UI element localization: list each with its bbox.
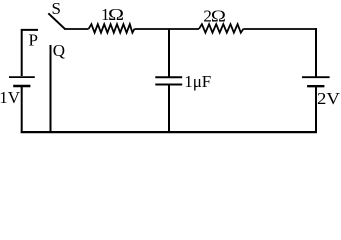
wire switch to resistor R1 [64, 28, 88, 30]
battery B2 short plate [307, 85, 324, 87]
svg-text:Ω: Ω [108, 6, 124, 24]
wire battery B1 to bottom [21, 87, 23, 133]
wire capacitor C1 to bottom [168, 85, 170, 133]
svg-text:1μF: 1μF [184, 72, 211, 91]
capacitor C1 bottom plate [155, 84, 182, 86]
capacitor C1 top plate [155, 76, 182, 78]
resistor R1 zigzag 1 ohm [89, 24, 135, 33]
resistor R2 zigzag 2 ohm [199, 24, 244, 33]
wire top-left stub to P contact [22, 30, 38, 76]
battery B1 short plate [13, 85, 30, 88]
svg-text:2V: 2V [317, 89, 341, 108]
battery B1 long plate [9, 76, 35, 78]
svg-text:P: P [29, 31, 38, 50]
switch S blade [48, 13, 65, 29]
wire R1 to node A [135, 28, 200, 30]
svg-text:1V: 1V [0, 88, 21, 107]
wire battery B2 to bottom [315, 87, 317, 133]
battery B2 long plate [302, 76, 330, 78]
svg-text:S: S [52, 0, 61, 18]
wire bottom [21, 131, 317, 133]
wire node Q vertical [50, 45, 52, 133]
wire top-right corner down to battery B2 [315, 28, 317, 77]
svg-text:Ω: Ω [211, 7, 226, 26]
svg-text:Q: Q [53, 41, 65, 60]
wire R2 to top-right corner [244, 28, 317, 30]
wire node A to capacitor C1 [168, 29, 170, 77]
